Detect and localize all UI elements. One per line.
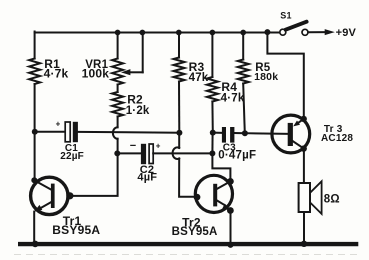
node junction dot C2 right / R4 column bbox=[209, 150, 215, 156]
wire R3 down to C1 node bbox=[178, 82, 180, 133]
wire speaker to ground rail bbox=[303, 212, 305, 244]
wire C2-node down to Tr1 base bbox=[70, 153, 118, 196]
resistor R3 bbox=[174, 58, 209, 85]
svg-text:+9V: +9V bbox=[336, 27, 357, 39]
svg-text:4·7k: 4·7k bbox=[44, 67, 69, 81]
node junction dot rail/R5 bbox=[240, 30, 246, 36]
wire VR1 to R2 bbox=[117, 85, 119, 93]
wire R4 column from rail bbox=[211, 33, 213, 78]
wire R4 down to C3 node bbox=[211, 102, 213, 133]
node junction dot R5 / Tr3 base bbox=[242, 130, 248, 136]
wire Tr2 emitter to ground rail bbox=[230, 211, 232, 246]
svg-text:AC128: AC128 bbox=[321, 133, 353, 144]
node junction dot rail/VR1 bbox=[115, 30, 121, 36]
wire VR1 wiper arm from rail bbox=[121, 33, 143, 76]
svg-text:100k: 100k bbox=[82, 67, 110, 81]
node junction dot speaker / ground rail bbox=[301, 241, 307, 247]
node junction dot C3 left / R4 column bbox=[210, 130, 216, 136]
capacitor C2 bbox=[117, 140, 212, 183]
svg-text:4µF: 4µF bbox=[137, 171, 157, 183]
svg-text:4·7k: 4·7k bbox=[221, 93, 245, 105]
svg-text:BSY95A: BSY95A bbox=[172, 226, 218, 238]
svg-text:BSY95A: BSY95A bbox=[52, 223, 100, 237]
svg-text:−: − bbox=[130, 140, 137, 152]
wire R5 down to Tr3 base node bbox=[243, 84, 245, 134]
wire top supply rail bbox=[35, 32, 280, 34]
resistor R4 bbox=[207, 77, 245, 105]
wire R4 column down to C2 right node bbox=[211, 133, 213, 154]
node junction dot Tr1 emitter / ground rail bbox=[32, 241, 39, 248]
svg-text:S1: S1 bbox=[280, 10, 291, 20]
wire left rail upper bbox=[34, 32, 36, 59]
wire VR1 column from rail bbox=[117, 33, 119, 59]
capacitor C1 bbox=[35, 120, 180, 162]
wire supply drop to Tr3 emitter bbox=[267, 33, 303, 119]
transistor Tr3 bbox=[272, 115, 353, 153]
wire R4 column down and over to Tr2 collector bbox=[212, 153, 230, 181]
wire ground rail bbox=[18, 242, 358, 246]
svg-text:+: + bbox=[156, 141, 161, 150]
resistor R5 bbox=[238, 60, 279, 84]
wire R3 column down with hop over C2 wire, to Tr2 base bbox=[173, 133, 197, 197]
wire and arrow to +9V bbox=[308, 27, 356, 39]
svg-text:0·47µF: 0·47µF bbox=[218, 149, 256, 161]
node junction dot rail/R3 bbox=[176, 30, 182, 36]
svg-text:+: + bbox=[56, 120, 61, 129]
speaker 8 ohm bbox=[299, 181, 340, 214]
wire Tr3 base from node bbox=[245, 132, 288, 135]
capacitor C3 bbox=[213, 127, 256, 161]
svg-text:8Ω: 8Ω bbox=[324, 193, 340, 205]
wire Tr3 collector to speaker bbox=[303, 149, 305, 183]
wire scan ghost line bbox=[14, 254, 360, 256]
transistor Tr2 bbox=[172, 175, 234, 238]
node junction dot rail/R4 bbox=[210, 30, 216, 36]
node junction dot C1/R3 column bbox=[176, 130, 182, 136]
node junction dot R2 column / C2 left bbox=[114, 150, 120, 156]
resistor R2 bbox=[112, 92, 150, 117]
potentiometer VR1 bbox=[82, 59, 124, 85]
wire R3 column from rail bbox=[178, 33, 180, 58]
wire Tr1 emitter to ground rail bbox=[33, 212, 35, 244]
node junction dot Tr2 emitter / ground rail bbox=[228, 242, 234, 248]
wire R5 column from rail bbox=[242, 33, 244, 60]
switch S1 bbox=[264, 10, 308, 35]
svg-text:1·2k: 1·2k bbox=[126, 105, 150, 117]
svg-text:22µF: 22µF bbox=[60, 151, 84, 162]
resistor R1 bbox=[29, 57, 68, 84]
wire R2 down with hop over C1 wire bbox=[113, 117, 118, 154]
transistor Tr1 bbox=[31, 177, 101, 237]
node junction dot rail/wiper bbox=[140, 30, 146, 36]
svg-text:180k: 180k bbox=[254, 71, 278, 83]
node junction dot C1/left rail bbox=[32, 129, 38, 135]
